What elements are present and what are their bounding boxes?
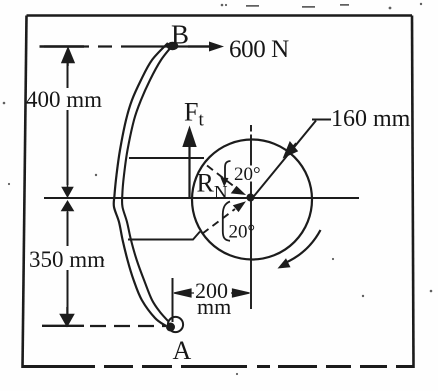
svg-text:20°: 20° <box>234 164 261 185</box>
svg-text:600 N: 600 N <box>229 36 289 63</box>
dimension 400 mm vertical line <box>67 60 69 185</box>
arrowhead rotation <box>278 258 291 268</box>
lever outer curve <box>114 43 168 326</box>
svg-text:160 mm: 160 mm <box>331 106 411 132</box>
lever inner curve <box>122 46 172 321</box>
angle brace lower <box>223 202 230 241</box>
extension tick top <box>40 45 85 47</box>
center junction dot <box>247 194 255 202</box>
angle brace upper <box>225 161 231 179</box>
pin A circle <box>168 317 183 332</box>
radius leader 160 mm <box>252 120 331 199</box>
arrowhead RN upper <box>232 187 246 195</box>
pin A dot <box>166 323 175 332</box>
dashed line to A <box>90 325 166 327</box>
arrowhead radius at rim <box>284 143 297 158</box>
svg-text:B: B <box>171 20 189 50</box>
force arrow 600 N <box>188 45 211 47</box>
svg-text:20°: 20° <box>229 222 256 243</box>
dashed reaction line upper <box>207 166 238 190</box>
leader line bottom contact <box>128 232 200 240</box>
arrowhead Ft <box>182 126 196 148</box>
dash-dot line through B <box>44 45 210 47</box>
extension tick bottom <box>42 325 84 327</box>
arrowhead 200 mm right <box>231 289 250 297</box>
horizontal centerline <box>44 197 359 199</box>
svg-text:400 mm: 400 mm <box>26 87 102 112</box>
arrowhead RN lower <box>234 202 246 212</box>
drum circle <box>192 140 312 260</box>
arrowhead 400 mm upper <box>62 48 74 66</box>
rotation arrow <box>285 230 321 263</box>
dimension 350 mm vertical line <box>67 212 69 314</box>
arrowhead 600 N <box>209 42 224 52</box>
svg-text:mm: mm <box>197 294 231 319</box>
arrowhead 350 mm upper <box>62 202 73 219</box>
pivot dot B <box>167 42 179 50</box>
arrowhead 350 mm lower <box>61 307 74 326</box>
dashed reaction line lower <box>203 209 236 234</box>
arrowhead 400 mm lower <box>63 180 73 197</box>
svg-text:A: A <box>173 336 192 365</box>
leader line top contact <box>129 157 204 159</box>
svg-text:350 mm: 350 mm <box>29 247 105 272</box>
angle brace upper arrow tip <box>221 178 228 186</box>
force arrow Ft <box>188 143 190 197</box>
svg-text:Ft: Ft <box>184 98 204 131</box>
arrowhead 200 mm left <box>174 289 194 297</box>
vertical centerline <box>250 125 252 309</box>
extension line at A for 200 mm <box>172 278 174 322</box>
